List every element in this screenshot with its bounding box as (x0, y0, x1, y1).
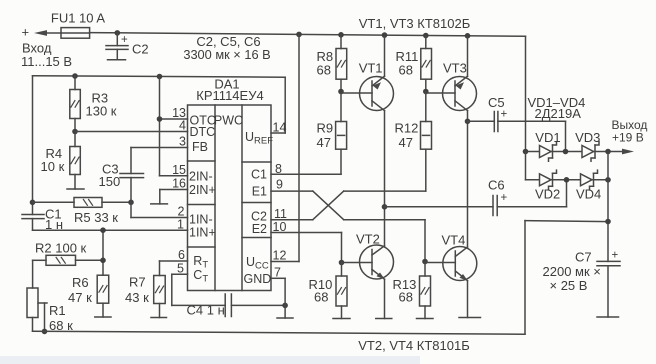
resistor R10 (336, 263, 347, 319)
ground bar of R13 (417, 318, 434, 320)
svg-text:43 к: 43 к (125, 290, 149, 305)
fuse FU1 (61, 28, 90, 39)
wire: pin 9 E1 crossover to VT4 base (271, 191, 425, 261)
diode VD2 (540, 170, 557, 189)
svg-text:1 н: 1 н (45, 217, 63, 232)
resistor R6 (97, 275, 109, 317)
diode VD3 (582, 142, 599, 161)
svg-text:4: 4 (179, 119, 186, 133)
node: phase B output junction (465, 119, 471, 125)
resistor R3 (70, 76, 81, 132)
svg-text:R7: R7 (129, 275, 146, 290)
svg-text:R6: R6 (72, 275, 89, 290)
svg-text:R12: R12 (395, 121, 419, 136)
svg-text:R2 100 к: R2 100 к (35, 241, 87, 256)
svg-text:PWC: PWC (214, 114, 243, 128)
node: C1/R5 junction (30, 200, 36, 206)
svg-text:3: 3 (179, 135, 186, 149)
svg-text:R5 33 к: R5 33 к (74, 210, 118, 225)
svg-text:R1: R1 (49, 303, 66, 318)
svg-text:+: + (121, 34, 128, 46)
node: R5/C3/1IN- junction (128, 200, 134, 206)
svg-text:VD3: VD3 (575, 130, 600, 145)
node: R11/R12/VT3 base junction (423, 89, 429, 95)
svg-text:5: 5 (177, 262, 184, 276)
wire: Uref bus (33, 76, 286, 133)
svg-text:+: + (612, 250, 619, 262)
wire: pin 11 C2 crossover to R12 (271, 191, 344, 220)
svg-text:150: 150 (99, 174, 121, 189)
svg-text:VD2: VD2 (535, 187, 560, 202)
svg-text:КР1114ЕУ4: КР1114ЕУ4 (196, 88, 263, 103)
node: Uref bus junctions (72, 73, 162, 79)
svg-text:VT2: VT2 (356, 232, 380, 247)
svg-text:VT1: VT1 (359, 61, 383, 76)
svg-text:10: 10 (273, 220, 287, 234)
resistor R4 (70, 132, 81, 190)
svg-text:47: 47 (399, 135, 413, 150)
node: diode row 1 junctions (523, 149, 611, 155)
capacitor C3 (120, 148, 144, 218)
transistor VT3 (426, 36, 477, 111)
svg-text:7: 7 (274, 266, 281, 280)
wire: pin 8 C1 to R9 (271, 149, 341, 174)
wire: diode row 2 (526, 152, 609, 180)
wire: VT1/VT2 collectors vertical (384, 111, 386, 246)
wire: R12 bottom to crossover (344, 149, 426, 191)
ground bar of VT4 emitter (459, 317, 481, 319)
wire: 1IN- line to pin 2 (131, 217, 188, 219)
svg-text:10 к: 10 к (41, 159, 65, 174)
wire: output feedback bottom run (33, 221, 609, 335)
resistor R1 with tap (27, 288, 47, 331)
svg-text:2IN+: 2IN+ (189, 183, 216, 197)
node: 1IN+/R2/R6 junctions (100, 227, 106, 263)
diode VD4 (581, 170, 598, 189)
svg-text:1: 1 (177, 218, 184, 232)
svg-text:+19 В: +19 В (612, 131, 644, 145)
svg-text:VT1, VT3 КТ8102Б: VT1, VT3 КТ8102Б (359, 16, 470, 31)
wire: pin 5 to C4 (172, 274, 225, 305)
svg-text:+: + (22, 25, 30, 40)
op-amp controller DA1 box (188, 105, 272, 291)
node: R8/R9/VT1 base junction (338, 89, 344, 95)
transistor VT2 (342, 245, 394, 319)
wire: top rail drop to diode bridge (525, 36, 527, 152)
svg-text:68: 68 (399, 63, 413, 78)
svg-text:VD1: VD1 (535, 130, 560, 145)
svg-text:+: + (501, 192, 508, 204)
resistor R9 (336, 92, 347, 150)
wire: VT3/VT4 collectors vertical (467, 111, 469, 247)
svg-text:2: 2 (178, 205, 185, 219)
ground bar of C2 (108, 59, 126, 61)
resistor R2 (33, 255, 103, 288)
svg-text:C1: C1 (251, 168, 267, 182)
capacitor C7 (597, 261, 620, 317)
svg-text:1IN+: 1IN+ (189, 226, 216, 240)
resistor R11 (421, 36, 432, 92)
wire: 1IN+ line to pin 1 (33, 229, 188, 231)
scan tint bottom edge (0, 356, 420, 364)
svg-text:FB: FB (192, 140, 208, 154)
svg-text:C2: C2 (132, 42, 149, 57)
capacitor C5 (468, 112, 566, 152)
wire: left rail Uref down to C1 (32, 76, 34, 215)
wire: divider tap vertical R2/R6 to 1IN+ (102, 230, 104, 275)
svg-text:68: 68 (399, 290, 413, 305)
node: pin13 junction (157, 116, 163, 122)
svg-text:68: 68 (314, 290, 328, 305)
transistor VT4 (425, 247, 477, 318)
svg-text:E1: E1 (252, 185, 267, 199)
node: top rail junctions (115, 30, 471, 38)
svg-text:VT2, VT4 КТ8101Б: VT2, VT4 КТ8101Б (358, 338, 469, 353)
capacitor C2 (106, 33, 128, 60)
svg-text:C6: C6 (488, 178, 505, 193)
svg-text:DTC: DTC (190, 125, 216, 139)
svg-text:8: 8 (275, 162, 282, 176)
node: R1 tap junction (42, 329, 48, 335)
wire: pin 6 to R7 (160, 261, 188, 276)
wire: diode row 1 (526, 151, 623, 153)
wire: +19V output vertical (607, 152, 609, 262)
svg-text:C4 1 н: C4 1 н (187, 302, 225, 317)
svg-text:2IN-: 2IN- (189, 169, 213, 183)
svg-text:+: + (501, 109, 508, 121)
capacitor C1 (22, 215, 44, 231)
svg-text:1IN-: 1IN- (189, 212, 213, 226)
node: VT2 base/R10 junction (339, 260, 345, 266)
svg-text:47: 47 (317, 135, 331, 150)
resistor R8 (336, 35, 347, 92)
svg-text:VT4: VT4 (442, 233, 466, 248)
ground bar of R7 (151, 317, 167, 319)
ground bar of R6 (95, 316, 111, 318)
node: output/feedback junction (605, 219, 611, 225)
wire: FB line to pin 3 (131, 147, 188, 149)
wire: pin 7 GND down (271, 278, 285, 318)
svg-text:68 к: 68 к (49, 318, 73, 333)
resistor R5 (33, 198, 132, 208)
capacitor C6 (385, 180, 567, 216)
svg-text:14: 14 (273, 121, 287, 135)
wire: pin 12 Ucc to top rail (271, 34, 299, 261)
svg-text:2Д219А: 2Д219А (535, 106, 582, 121)
input arrow (34, 30, 61, 36)
svg-text:130 к: 130 к (86, 104, 117, 119)
wire: Uref to pins 13 and 15 (160, 77, 188, 176)
capacitor C4 (225, 294, 285, 317)
svg-text:15: 15 (172, 163, 186, 177)
output arrow (622, 149, 634, 155)
svg-text:12: 12 (273, 249, 287, 263)
svg-text:R9: R9 (317, 121, 334, 136)
svg-text:E2: E2 (252, 222, 267, 236)
svg-text:GND: GND (244, 272, 272, 286)
ground bar of R4 (67, 188, 84, 190)
wire: +input top rail (90, 33, 526, 37)
diode VD1 (540, 142, 557, 161)
ground bar of pin 16 (151, 203, 168, 205)
svg-text:68: 68 (317, 63, 331, 78)
wire: pin 10 E2 to VT2 base (271, 233, 342, 263)
svg-text:47 к: 47 к (68, 290, 92, 305)
node: VT4 base/R13 junction (422, 259, 428, 265)
svg-text:16: 16 (172, 177, 186, 191)
node: phase A output junction (382, 204, 388, 210)
svg-text:11...15 В: 11...15 В (21, 54, 72, 69)
ground bar of R10 (333, 318, 350, 320)
svg-text:VT3: VT3 (443, 61, 467, 76)
svg-text:6: 6 (178, 248, 185, 262)
node: diode row 2 junctions (564, 177, 611, 183)
svg-text:FU1 10 A: FU1 10 A (51, 11, 106, 26)
svg-text:11: 11 (274, 207, 287, 221)
svg-text:C7: C7 (575, 250, 592, 265)
resistor R12 (421, 92, 432, 150)
node: R3/R4/DTC junction (72, 129, 78, 135)
svg-text:2200 мк ×: 2200 мк × (543, 264, 601, 279)
resistor R7 (154, 276, 166, 318)
svg-text:9: 9 (276, 178, 283, 192)
ground bar of pin 7 (277, 317, 293, 319)
svg-text:× 25 В: × 25 В (550, 278, 588, 293)
ground bar of C7 (597, 316, 619, 318)
ground bar of VT2 emitter (376, 318, 392, 320)
wire: DTC line to pin 4 (75, 131, 188, 133)
node: C4/GND junction (282, 303, 288, 309)
wire: pin 16 to ground (160, 190, 188, 204)
svg-text:3300 мк × 16 В: 3300 мк × 16 В (183, 47, 270, 62)
resistor R13 (420, 262, 431, 319)
svg-text:VD4: VD4 (576, 187, 601, 202)
transistor VT1 (341, 35, 394, 111)
